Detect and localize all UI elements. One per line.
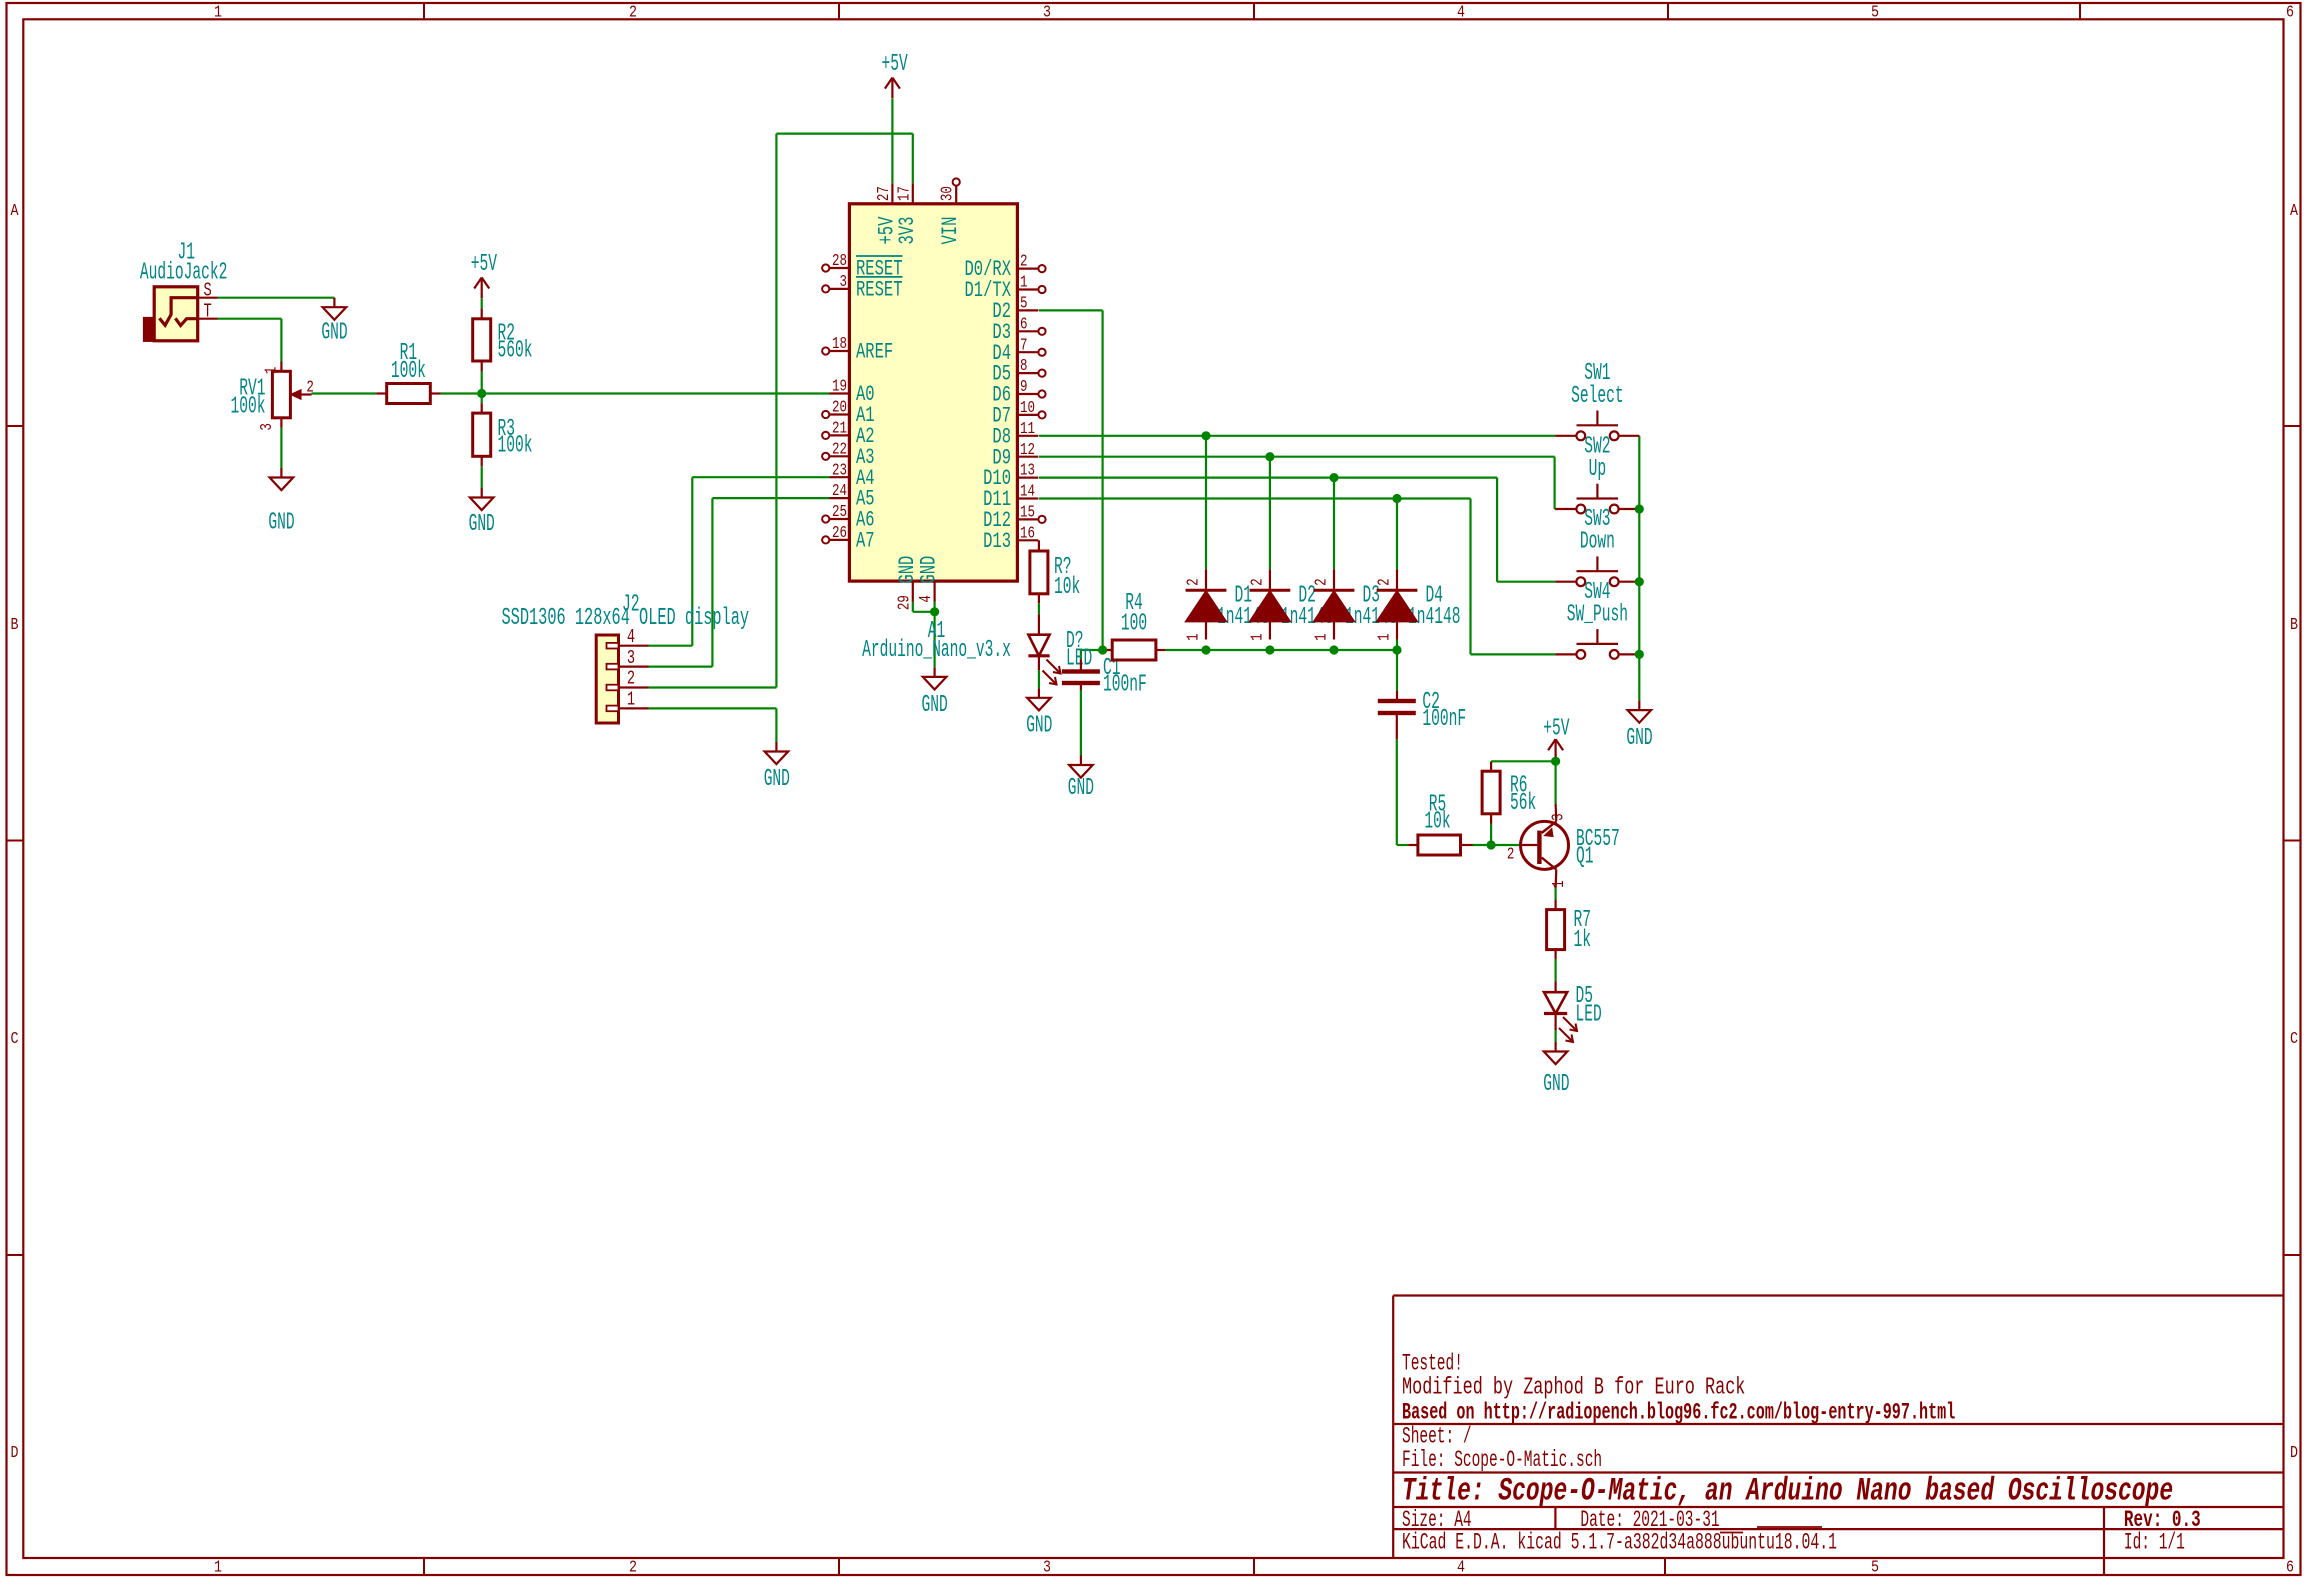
svg-text:Q1: Q1: [1576, 844, 1594, 871]
ground GND (J1 sleeve): [321, 298, 347, 347]
svg-text:Title: Scope-O-Matic, an Ardui: Title: Scope-O-Matic, an Arduino Nano ba…: [1402, 1472, 2173, 1509]
junction: [1265, 645, 1274, 654]
diode D1 1n4148: [1185, 569, 1270, 641]
svg-text:GND: GND: [764, 766, 790, 793]
ground GND (J2): [764, 742, 790, 793]
LED D5: [1544, 982, 1602, 1043]
svg-text:4: 4: [1457, 4, 1465, 23]
svg-text:1: 1: [1550, 880, 1569, 888]
svg-text:B: B: [11, 616, 19, 635]
svg-text:A: A: [11, 202, 20, 221]
svg-text:GND: GND: [321, 320, 347, 347]
svg-text:3: 3: [1043, 1559, 1051, 1578]
wire J2 pin2 to +5V rail: [649, 134, 777, 688]
svg-text:28: 28: [832, 252, 847, 271]
svg-text:26: 26: [832, 524, 847, 543]
svg-text:560k: 560k: [498, 337, 533, 364]
ground GND (R3): [469, 488, 495, 538]
svg-text:1: 1: [262, 367, 281, 375]
svg-text:3: 3: [1550, 813, 1569, 821]
ground GND (switches): [1626, 701, 1652, 753]
wire RV1 pin3 to GND: [280, 428, 282, 468]
wire D9 to SW2: [1039, 457, 1555, 509]
svg-text:2: 2: [629, 4, 637, 23]
svg-text:23: 23: [832, 461, 847, 480]
wire C1 to GND: [1080, 690, 1082, 756]
svg-text:1: 1: [1185, 633, 1204, 641]
svg-text:56k: 56k: [1510, 790, 1536, 817]
wire J1-S to GND: [218, 297, 335, 299]
junction: [930, 607, 939, 616]
wire switch common rail: [1638, 436, 1640, 701]
svg-text:LED: LED: [1066, 645, 1092, 672]
svg-text:3: 3: [840, 273, 848, 292]
svg-text:1k: 1k: [1574, 927, 1592, 954]
wire RV1 wiper to R1: [312, 392, 377, 394]
svg-text:14: 14: [1020, 483, 1035, 502]
svg-text:Select: Select: [1571, 383, 1624, 410]
svg-text:Based on http://radiopench.blo: Based on http://radiopench.blog96.fc2.co…: [1402, 1399, 1955, 1425]
svg-text:2: 2: [1507, 846, 1515, 865]
svg-text:13: 13: [1020, 462, 1035, 481]
wire J1-T to RV1: [218, 319, 282, 362]
svg-text:25: 25: [832, 503, 847, 522]
svg-text:100k: 100k: [498, 433, 533, 460]
power +5V (R2): [471, 251, 498, 298]
wire +5V to Nano pin27: [891, 98, 893, 183]
svg-text:GND: GND: [469, 511, 495, 538]
wire D3 anode drop: [1333, 478, 1335, 570]
svg-text:100nF: 100nF: [1103, 672, 1147, 699]
junction: [1329, 645, 1338, 654]
wire R8 to LED D?: [1038, 603, 1040, 614]
diode D4 1n4148: [1376, 569, 1461, 641]
svg-text:+5V: +5V: [1543, 716, 1570, 743]
svg-text:11: 11: [1020, 420, 1035, 439]
LED D?: [1028, 614, 1092, 684]
wire R3 to GND: [481, 466, 483, 488]
svg-text:2: 2: [1185, 578, 1204, 586]
svg-text:+5V: +5V: [471, 251, 498, 278]
junction: [1635, 504, 1644, 513]
svg-text:Id: 1/1: Id: 1/1: [2124, 1530, 2185, 1556]
resistor R2 560k: [473, 309, 533, 371]
svg-text:1: 1: [1020, 274, 1028, 293]
wire +5V branch to R6: [1491, 760, 1556, 763]
svg-text:Sheet: /: Sheet: /: [1402, 1423, 1472, 1449]
svg-text:10: 10: [1020, 399, 1035, 418]
svg-text:4: 4: [1457, 1559, 1465, 1578]
svg-text:100nF: 100nF: [1422, 706, 1466, 733]
svg-text:File: Scope-O-Matic.sch: File: Scope-O-Matic.sch: [1402, 1447, 1602, 1473]
svg-text:100k: 100k: [231, 394, 266, 421]
diode D2 1n4148: [1248, 569, 1333, 641]
junction: [1201, 645, 1210, 654]
power +5V (Q1): [1543, 716, 1570, 760]
IC A1 Arduino_Nano_v3.x: [822, 178, 1045, 664]
svg-text:2: 2: [1020, 253, 1028, 272]
svg-text:SSD1306 128x64 OLED display: SSD1306 128x64 OLED display: [502, 605, 750, 632]
wire D2 anode drop: [1269, 457, 1271, 570]
svg-text:17: 17: [895, 186, 914, 201]
ground GND (D5): [1543, 1042, 1569, 1098]
svg-text:6: 6: [2286, 4, 2294, 23]
svg-text:GND: GND: [268, 510, 294, 537]
resistor R1 100k: [376, 340, 440, 403]
svg-text:Tested!: Tested!: [1402, 1351, 1463, 1377]
svg-text:RESET: RESET: [856, 278, 903, 303]
svg-text:2: 2: [629, 1559, 637, 1578]
wire Nano pin4 to GND: [933, 602, 935, 668]
svg-text:29: 29: [895, 595, 914, 610]
wire D11 to SW4: [1039, 499, 1555, 655]
switch SW2 Up: [1555, 433, 1639, 513]
svg-text:5: 5: [1020, 295, 1028, 314]
svg-text:D: D: [2290, 1444, 2298, 1463]
svg-text:5: 5: [1871, 1559, 1879, 1578]
svg-text:1n4148: 1n4148: [1408, 604, 1461, 631]
svg-text:21: 21: [832, 420, 847, 439]
svg-text:D: D: [11, 1444, 19, 1463]
svg-text:+5V: +5V: [882, 51, 909, 78]
svg-text:1: 1: [214, 4, 222, 23]
junction: [1329, 473, 1338, 482]
wire D4 anode drop: [1396, 499, 1398, 570]
svg-text:10k: 10k: [1424, 809, 1450, 836]
svg-text:GND: GND: [1068, 775, 1094, 802]
svg-text:D13: D13: [983, 529, 1011, 554]
wire J2 pin3 to A5: [649, 498, 830, 666]
wire R2 to node: [481, 371, 483, 394]
svg-text:3: 3: [258, 423, 277, 431]
resistor R? 10k: [1030, 540, 1080, 603]
svg-text:1: 1: [1248, 633, 1267, 641]
wire J2 pin1 to GND: [649, 708, 777, 742]
junction: [477, 389, 486, 398]
svg-text:2: 2: [306, 379, 314, 398]
svg-text:1: 1: [1313, 633, 1332, 641]
wire D4 to C2: [1396, 640, 1398, 692]
potentiometer RV1 100k: [231, 362, 314, 431]
svg-text:10k: 10k: [1054, 574, 1080, 601]
wire R6 to base node: [1490, 824, 1492, 846]
svg-text:9: 9: [1020, 378, 1028, 397]
ground GND (C1): [1068, 756, 1094, 802]
svg-text:6: 6: [2286, 1559, 2294, 1578]
junction: [1392, 645, 1401, 654]
wire LED D? to GND: [1038, 670, 1040, 688]
capacitor C1 100nF: [1062, 655, 1147, 699]
resistor R4 100: [1103, 590, 1166, 660]
diode D3 1n4148: [1313, 569, 1398, 641]
wire Nano pin29 to GND node: [913, 602, 935, 612]
wire 3V3 rail: [776, 134, 912, 184]
svg-text:18: 18: [832, 335, 847, 354]
svg-text:30: 30: [939, 186, 958, 201]
wire R7 to D5: [1554, 959, 1556, 982]
svg-text:AREF: AREF: [856, 340, 893, 365]
wire D1 anode drop: [1205, 436, 1207, 570]
svg-text:Up: Up: [1589, 456, 1607, 483]
svg-text:SW_Push: SW_Push: [1567, 601, 1628, 628]
power +5V (Nano): [882, 51, 909, 98]
junction: [1265, 452, 1274, 461]
svg-text:22: 22: [832, 440, 847, 459]
wire D8 to SW1: [1039, 435, 1555, 437]
svg-text:GND: GND: [1543, 1071, 1569, 1098]
svg-text:GND: GND: [1026, 713, 1052, 740]
svg-text:A7: A7: [856, 529, 875, 554]
svg-text:20: 20: [832, 399, 847, 418]
connector J2 SSD1306 OLED display: [502, 592, 750, 723]
svg-text:12: 12: [1020, 441, 1035, 460]
wire C2 to R5: [1397, 739, 1409, 845]
svg-text:24: 24: [832, 482, 847, 501]
svg-text:8: 8: [1020, 357, 1028, 376]
svg-text:2: 2: [627, 668, 635, 690]
svg-text:GND: GND: [1626, 725, 1652, 752]
svg-text:5: 5: [1871, 4, 1879, 23]
svg-text:2: 2: [1376, 578, 1395, 586]
wire +5V to Q1 collector: [1554, 754, 1556, 804]
svg-text:Modified by Zaphod B for Euro: Modified by Zaphod B for Euro Rack: [1402, 1375, 1745, 1402]
svg-text:3: 3: [1043, 4, 1051, 23]
svg-text:3: 3: [627, 647, 635, 669]
svg-text:2: 2: [1313, 578, 1332, 586]
svg-text:27: 27: [875, 186, 894, 201]
wire node to R3: [481, 394, 483, 404]
switch SW3 Down: [1555, 506, 1639, 586]
svg-text:7: 7: [1020, 336, 1028, 355]
svg-text:B: B: [2290, 616, 2298, 635]
svg-text:C: C: [11, 1030, 19, 1049]
wire R4 to diodes: [1165, 649, 1397, 651]
svg-text:T: T: [204, 301, 212, 323]
svg-text:GND: GND: [922, 692, 948, 719]
junction: [1635, 650, 1644, 659]
resistor R3 100k: [473, 403, 533, 466]
svg-text:2: 2: [1248, 578, 1267, 586]
svg-text:LED: LED: [1576, 1002, 1602, 1029]
ground GND (Nano): [922, 667, 948, 719]
svg-text:6: 6: [1020, 315, 1028, 334]
wire +5V to R2: [481, 298, 483, 309]
capacitor C2 100nF: [1378, 689, 1466, 740]
svg-text:16: 16: [1020, 524, 1035, 543]
wire D10 to SW3: [1039, 478, 1555, 582]
svg-text:15: 15: [1020, 504, 1035, 523]
wire Q1 emitter to R7: [1554, 888, 1556, 900]
svg-text:4: 4: [917, 595, 936, 603]
ground GND (LED D?): [1026, 688, 1052, 739]
junction: [1487, 840, 1496, 849]
svg-text:19: 19: [832, 378, 847, 397]
svg-text:VIN: VIN: [938, 217, 963, 245]
svg-text:C: C: [2290, 1030, 2298, 1049]
connector J1 AudioJack2: [140, 240, 228, 341]
resistor R6 56k: [1482, 762, 1536, 824]
wire D2 to R4 node: [1039, 310, 1103, 650]
junction: [1635, 577, 1644, 586]
svg-text:KiCad E.D.A. kicad 5.1.7-a382: KiCad E.D.A. kicad 5.1.7-a382d34a888ubun…: [1402, 1530, 1837, 1556]
junction: [1201, 431, 1210, 440]
ground GND (RV1): [268, 468, 294, 537]
transistor Q1 BC557: [1507, 804, 1620, 888]
svg-text:100k: 100k: [391, 358, 426, 385]
switch SW4 SW_Push: [1555, 579, 1639, 659]
switch SW1 Select: [1555, 360, 1639, 440]
wire J2 pin4 to A4: [649, 477, 830, 646]
svg-text:1: 1: [1376, 633, 1395, 641]
resistor R5 10k: [1408, 791, 1472, 855]
wire R1 to A0 / node: [441, 392, 830, 394]
svg-text:3V3: 3V3: [895, 217, 920, 245]
svg-text:AudioJack2: AudioJack2: [140, 260, 228, 287]
wire D5 to GND: [1554, 1030, 1556, 1042]
svg-text:1: 1: [627, 689, 635, 711]
resistor R7 1k: [1547, 900, 1591, 960]
svg-text:GND: GND: [917, 556, 942, 584]
svg-text:1: 1: [214, 1559, 222, 1578]
junction: [1551, 757, 1560, 766]
wire C1 to node: [1081, 650, 1113, 659]
junction: [1098, 645, 1107, 654]
svg-text:Arduino_Nano_v3.x: Arduino_Nano_v3.x: [862, 637, 1011, 664]
svg-text:Down: Down: [1580, 529, 1615, 556]
title block: [1393, 1296, 2283, 1576]
wire R5 to Q1 base: [1473, 844, 1520, 846]
svg-text:100: 100: [1121, 611, 1147, 638]
junction: [1392, 494, 1401, 503]
svg-text:A: A: [2290, 202, 2299, 221]
